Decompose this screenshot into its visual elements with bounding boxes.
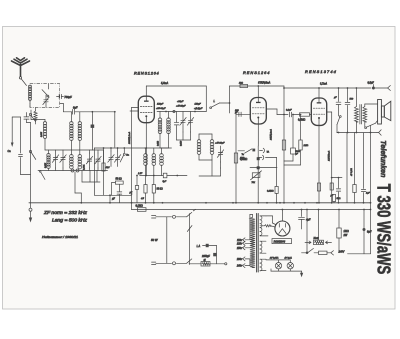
resistor R3	[103, 148, 105, 163]
coil L2b	[48, 150, 50, 154]
svg-text:0,022: 0,022	[158, 140, 160, 146]
svg-text:Netz: Netz	[314, 237, 320, 240]
wire left branch	[20, 117, 22, 153]
svg-text:Heftnummer / 1930/11: Heftnummer / 1930/11	[42, 235, 78, 239]
wire rail y140	[160, 147, 169, 149]
svg-text:RENS1264: RENS1264	[134, 71, 160, 76]
svg-text:5,5mA: 5,5mA	[161, 82, 169, 85]
capacitor sq1	[257, 157, 260, 160]
V1 cathode	[145, 123, 147, 176]
coil L6	[78, 155, 82, 159]
svg-text:RENS1264: RENS1264	[243, 70, 270, 75]
if2 trimmer	[220, 146, 222, 153]
switch Ra	[123, 153, 125, 155]
trimmer C5	[97, 153, 99, 159]
svg-text:L A: L A	[197, 245, 201, 248]
svg-text:0,015: 0,015	[45, 162, 47, 168]
resistor R9	[300, 115, 302, 141]
V1 anode wire	[145, 86, 147, 96]
main bus	[29, 202, 371, 204]
capacitor 500	[347, 88, 349, 102]
coil if lower	[145, 148, 147, 154]
tuning cap C3	[62, 150, 64, 158]
svg-text:50 kΩ: 50 kΩ	[116, 179, 122, 181]
wire y148 band	[145, 147, 172, 149]
wave switch arm	[42, 90, 47, 96]
V3 screen line	[327, 111, 332, 113]
coil L5	[70, 155, 74, 159]
resistor R7	[234, 153, 237, 163]
switch S1	[29, 113, 31, 115]
svg-text:2950µF: 2950µF	[201, 256, 210, 258]
if2 coil A	[198, 134, 200, 140]
antenna coupler box (dashed)	[30, 84, 60, 108]
transformer core	[256, 214, 258, 273]
svg-text:120µF: 120µF	[157, 104, 164, 106]
svg-text:25K/5,2mA: 25K/5,2mA	[270, 129, 273, 141]
wire r2	[92, 149, 103, 151]
capacitor c mid2	[363, 133, 365, 189]
line 100k	[131, 108, 133, 210]
V2 top	[257, 86, 259, 98]
wire grid3	[277, 114, 288, 116]
wire y175 ext	[140, 175, 187, 177]
resistor R8	[282, 140, 285, 150]
wire ground column	[30, 123, 32, 203]
svg-text:8µF: 8µF	[73, 106, 78, 110]
V2 cathode	[257, 124, 259, 146]
svg-text:3,7mA: 3,7mA	[320, 83, 327, 86]
V1 grid stub	[132, 107, 139, 109]
svg-text:5kΩ: 5kΩ	[337, 198, 341, 200]
vertical right rail	[370, 126, 372, 254]
wire	[30, 110, 32, 120]
speaker switch	[365, 127, 367, 129]
resistor 0,1M	[137, 208, 146, 212]
wire	[199, 133, 212, 135]
svg-text:1,5F: 1,5F	[138, 173, 143, 175]
svg-text:RENS1374d: RENS1374d	[305, 69, 337, 74]
antenna coil L1	[28, 85, 31, 88]
wire rail speaker	[337, 132, 377, 134]
right bottom rail	[348, 253, 371, 255]
terminal out1	[388, 86, 391, 91]
rect leads	[281, 210, 283, 222]
jack TA	[260, 150, 263, 152]
capacitor C out1	[338, 88, 340, 102]
svg-text:1µF: 1µF	[366, 193, 370, 195]
mains cord	[152, 215, 156, 217]
capacitor 8pF	[62, 104, 64, 112]
svg-text:30 kΩ: 30 kΩ	[157, 189, 163, 191]
jack drop	[74, 172, 76, 193]
svg-text:T 330 WS/aWS: T 330 WS/aWS	[374, 184, 395, 274]
wire y167.6	[250, 167, 277, 169]
speaker	[378, 100, 382, 125]
trimmer C4	[89, 153, 91, 159]
if1 coil B	[168, 112, 170, 119]
coil L2	[43, 122, 46, 125]
tube V3 RENS1374d	[311, 98, 326, 125]
pilot lamp 2	[287, 263, 293, 269]
svg-text:0,010: 0,010	[181, 140, 183, 146]
svg-text:1MΩ: 1MΩ	[240, 158, 245, 160]
second rail y182	[81, 171, 83, 183]
V3 top	[318, 88, 320, 98]
wire top tuning	[83, 111, 115, 113]
dots2	[136, 175, 138, 177]
svg-text:+20µF: +20µF	[177, 101, 184, 103]
jack circles	[71, 169, 74, 172]
svg-text:STK/0,5mA: STK/0,5mA	[258, 82, 271, 85]
vertical 0.5M	[235, 112, 237, 203]
svg-text:4V 0,5A: 4V 0,5A	[350, 168, 353, 176]
dots	[131, 193, 133, 195]
svg-text:+(8,3)µF: +(8,3)µF	[194, 108, 203, 110]
coil if lower 3	[161, 148, 163, 154]
capacitor 0,5uF	[372, 87, 375, 90]
resistor 0,1M b	[276, 158, 278, 187]
capacitor sq2	[257, 166, 260, 169]
bus dots	[162, 202, 164, 204]
svg-text:150v: 150v	[237, 247, 243, 250]
svg-text:0,5MΩ: 0,5MΩ	[298, 119, 305, 122]
tube V2 RENS1264	[250, 98, 266, 125]
svg-text:2W: 2W	[343, 234, 348, 237]
V2 grid cap	[236, 113, 250, 115]
coil if lower 2	[153, 148, 155, 154]
capacitor 8uF	[363, 210, 365, 230]
wire	[229, 86, 231, 113]
capacitor 1uF	[118, 184, 120, 191]
antenna trimmer C1	[45, 95, 47, 100]
svg-text:200v: 200v	[236, 258, 243, 261]
svg-text:+45·20µF: +45·20µF	[176, 105, 186, 108]
wire rail y150	[45, 149, 92, 151]
svg-text:240v: 240v	[236, 265, 243, 268]
mains left vertical	[166, 217, 168, 263]
transformer taps	[243, 238, 245, 242]
output transformer T2	[355, 88, 357, 107]
terminal Ca arrow	[11, 117, 13, 144]
svg-text:2kΩ: 2kΩ	[238, 83, 243, 85]
if1 trimmer B	[190, 112, 192, 121]
capacitor C fixed	[91, 112, 93, 125]
resistor 1M2W	[338, 210, 340, 229]
resistor mid	[354, 133, 356, 185]
wire antenna down	[26, 113, 28, 117]
switch L	[210, 107, 212, 109]
capacitor c mid1	[338, 178, 340, 188]
svg-text:ZF norm = 232 kHz: ZF norm = 232 kHz	[43, 210, 88, 215]
svg-text:240V: 240V	[338, 251, 345, 254]
resistor 5k	[332, 195, 335, 202]
svg-text:0,005: 0,005	[41, 131, 43, 137]
svg-text:8µF: 8µF	[367, 231, 372, 234]
mains bottom wire	[156, 262, 172, 264]
cap 5uF on line	[163, 173, 167, 178]
mains top wire	[156, 216, 172, 218]
svg-text:Lang = 500 kHz: Lang = 500 kHz	[52, 218, 88, 223]
transformer secondary	[260, 216, 262, 220]
resistor R5	[153, 176, 155, 185]
svg-text:50 W: 50 W	[151, 238, 158, 242]
if1 trimmer A	[182, 112, 184, 121]
svg-text:4V 0,65A: 4V 0,65A	[270, 257, 279, 260]
svg-text:Telefunken: Telefunken	[379, 140, 388, 178]
wire avc	[94, 147, 146, 149]
rectifier RGN1064	[275, 221, 290, 236]
resistor R4	[145, 176, 147, 185]
svg-text:4V 0,1A: 4V 0,1A	[284, 257, 292, 260]
jack TA 2	[258, 157, 262, 159]
svg-text:+35·80µF: +35·80µF	[156, 108, 166, 110]
vertical B+	[283, 88, 285, 203]
mains arrow	[193, 209, 195, 211]
wire primary top	[252, 215, 254, 218]
svg-text:125v: 125v	[237, 242, 243, 245]
trimmer C6	[110, 151, 112, 157]
pilot lamp 1	[275, 263, 281, 269]
label RGN1064	[272, 239, 292, 244]
switch out	[339, 116, 341, 118]
antenna switch contact	[19, 77, 21, 79]
svg-text:RGN1064: RGN1064	[274, 240, 286, 244]
lower rail	[302, 252, 308, 254]
svg-text:120µF: 120µF	[195, 104, 202, 106]
padder C7	[117, 151, 119, 157]
tube V1 RENS1264	[138, 96, 154, 123]
wire rail y170	[38, 170, 108, 172]
wire B+ top	[230, 85, 285, 87]
svg-text:0,5µF: 0,5µF	[368, 82, 375, 85]
fuse feed wire	[318, 210, 320, 241]
rail switch	[39, 171, 41, 173]
svg-text:0,1µF: 0,1µF	[286, 110, 292, 112]
svg-text:100K/1,1mA: 100K/1,1mA	[128, 131, 131, 144]
if2 coil B	[211, 134, 213, 140]
svg-text:127K/8mA: 127K/8mA	[328, 150, 331, 161]
second bus	[132, 209, 371, 211]
lamp wires	[266, 259, 290, 261]
resistor R6	[240, 84, 248, 87]
svg-text:1MΩ: 1MΩ	[304, 145, 309, 147]
svg-text:700µF: 700µF	[64, 95, 72, 99]
earth switch	[29, 150, 31, 152]
wire LA drop	[216, 246, 218, 264]
svg-text:1MΩ: 1MΩ	[344, 230, 349, 233]
svg-text:0,1MΩ: 0,1MΩ	[267, 191, 274, 193]
capacitor 1uF b	[136, 176, 138, 186]
svg-text:0,1MΩ: 0,1MΩ	[136, 205, 143, 208]
wire x347 down	[346, 133, 348, 203]
capacitor 4uF	[301, 210, 303, 217]
antenna	[12, 58, 30, 76]
if1 coil A	[159, 112, 161, 119]
wire	[205, 86, 207, 112]
svg-text:+45·20µF: +45·20µF	[215, 142, 225, 145]
wire rail y113	[157, 111, 206, 113]
wire	[114, 112, 116, 147]
mains right vertical	[189, 214, 191, 265]
resistor R1	[35, 108, 37, 111]
capacitor 700pF	[57, 96, 60, 98]
svg-text:0,001: 0,001	[84, 164, 86, 170]
ground terminal	[29, 208, 32, 211]
if1 cap mid	[176, 112, 178, 123]
V2 cathode line	[257, 146, 259, 203]
V3 cathode	[318, 125, 320, 202]
bandfilter coils L3 L4	[70, 112, 72, 122]
volume pot	[252, 173, 260, 178]
secondary taps	[260, 215, 266, 217]
mains transformer primary	[250, 217, 255, 267]
tuning cap C2 (ganged)	[55, 150, 57, 158]
V2 grid out	[266, 108, 277, 110]
capacitor 5000	[292, 115, 294, 149]
terminal out2	[379, 130, 382, 135]
